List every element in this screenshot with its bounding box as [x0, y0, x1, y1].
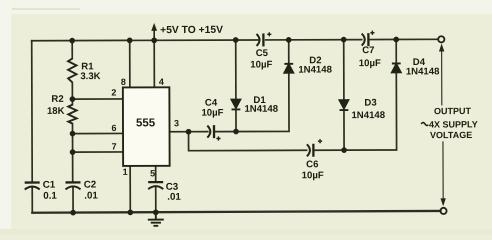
wire pin 8	[129, 40, 131, 87]
svg-text:R2: R2	[51, 94, 63, 105]
svg-text:5: 5	[150, 168, 155, 178]
wire D1 top	[235, 40, 237, 99]
op-amp U1 555 IC box	[123, 87, 170, 166]
svg-text:+5V TO +15V: +5V TO +15V	[160, 25, 223, 36]
wire C3 to bottom rail	[155, 186, 157, 212]
wire top rail left segment	[32, 39, 259, 42]
capacitor C7	[362, 31, 375, 46]
svg-text:1N4148: 1N4148	[244, 104, 278, 115]
svg-text:0.1: 0.1	[43, 191, 57, 202]
wire pin 3	[170, 131, 189, 133]
wire pin 6	[73, 132, 123, 134]
capacitor C4	[207, 125, 220, 141]
svg-text:1N4148: 1N4148	[298, 64, 332, 75]
resistor R2	[68, 105, 76, 124]
svg-text:.01: .01	[167, 192, 181, 203]
wire D1 bottom	[235, 110, 237, 132]
svg-text:2: 2	[111, 87, 116, 97]
svg-text:10µF: 10µF	[250, 59, 272, 70]
diode D3	[340, 100, 349, 110]
svg-text:C6: C6	[306, 159, 318, 170]
diode D2	[284, 64, 293, 73]
svg-text:1N4148: 1N4148	[406, 66, 440, 77]
svg-text:18K: 18K	[47, 106, 65, 117]
wire D3 top	[343, 40, 345, 100]
svg-text:7: 7	[112, 141, 117, 151]
wire row B: C4 to D2 corner	[215, 72, 289, 131]
wire C2 to bottom rail	[72, 187, 74, 213]
svg-text:6: 6	[111, 123, 116, 133]
svg-text:3.3K: 3.3K	[80, 71, 100, 82]
svg-text:10µF: 10µF	[201, 108, 223, 119]
capacitor C2	[65, 182, 80, 189]
wire D3 bottom	[343, 110, 345, 150]
wire row C: C6 to D4 corner	[314, 72, 397, 150]
annotation arrow down to bottom terminal	[440, 141, 446, 206]
svg-text:3: 3	[174, 118, 179, 128]
svg-text:1N4148: 1N4148	[351, 110, 385, 121]
capacitor C6	[307, 139, 322, 157]
capacitor C5	[256, 32, 271, 46]
wire left vertical upper (to C1)	[31, 41, 33, 182]
label ~4X SUPPLY	[421, 122, 428, 125]
svg-text:C5: C5	[256, 48, 269, 59]
wire pin 4	[153, 40, 155, 87]
wire pin 7	[73, 151, 123, 153]
svg-text:4X SUPPLY: 4X SUPPLY	[429, 119, 478, 129]
output terminal top	[438, 36, 444, 42]
svg-text:.01: .01	[84, 191, 98, 202]
wire R2 to pin6 node to pin7 node	[71, 124, 73, 152]
wire top rail middle segment	[266, 39, 362, 41]
capacitor C3	[148, 182, 163, 189]
wire row B: pin3 node to C4	[189, 131, 208, 133]
wire bottom rail	[32, 211, 440, 213]
ground	[148, 212, 164, 226]
wire R column: rail to R1	[71, 41, 73, 59]
wire pin 2	[72, 98, 122, 100]
svg-text:C1: C1	[43, 180, 56, 191]
diode D4	[392, 63, 401, 72]
wire R1 to pin2 node	[71, 83, 73, 105]
output terminal bottom	[440, 208, 446, 214]
wire pin 5 to C3	[155, 166, 157, 182]
svg-text:VOLTAGE: VOLTAGE	[430, 130, 472, 140]
supply arrow	[151, 23, 157, 41]
diode D1	[232, 100, 241, 110]
svg-text:C7: C7	[362, 45, 374, 56]
svg-text:C2: C2	[84, 180, 97, 191]
svg-text:4: 4	[159, 77, 164, 87]
svg-text:10µF: 10µF	[359, 58, 381, 69]
wire pin 1	[129, 166, 131, 212]
svg-text:D3: D3	[364, 98, 376, 109]
wire left vertical lower (C1 to bottom rail)	[31, 187, 33, 213]
svg-text:555: 555	[136, 117, 156, 129]
annotation arrow up to output terminal	[439, 44, 445, 106]
wire D2 cathode to rail	[288, 40, 290, 63]
svg-text:1: 1	[123, 167, 128, 177]
svg-text:8: 8	[121, 77, 126, 87]
svg-text:10µF: 10µF	[302, 170, 324, 181]
node junction dots	[69, 37, 399, 216]
svg-text:OUTPUT: OUTPUT	[434, 106, 472, 116]
resistor R1	[68, 59, 76, 83]
wire pin7 node down to C2	[72, 152, 74, 182]
wire D4 cathode to rail	[395, 39, 397, 62]
wire row C: pin3 node down and right to C6	[189, 131, 307, 150]
wire top rail right segment	[370, 38, 438, 40]
capacitor C1	[25, 183, 40, 190]
